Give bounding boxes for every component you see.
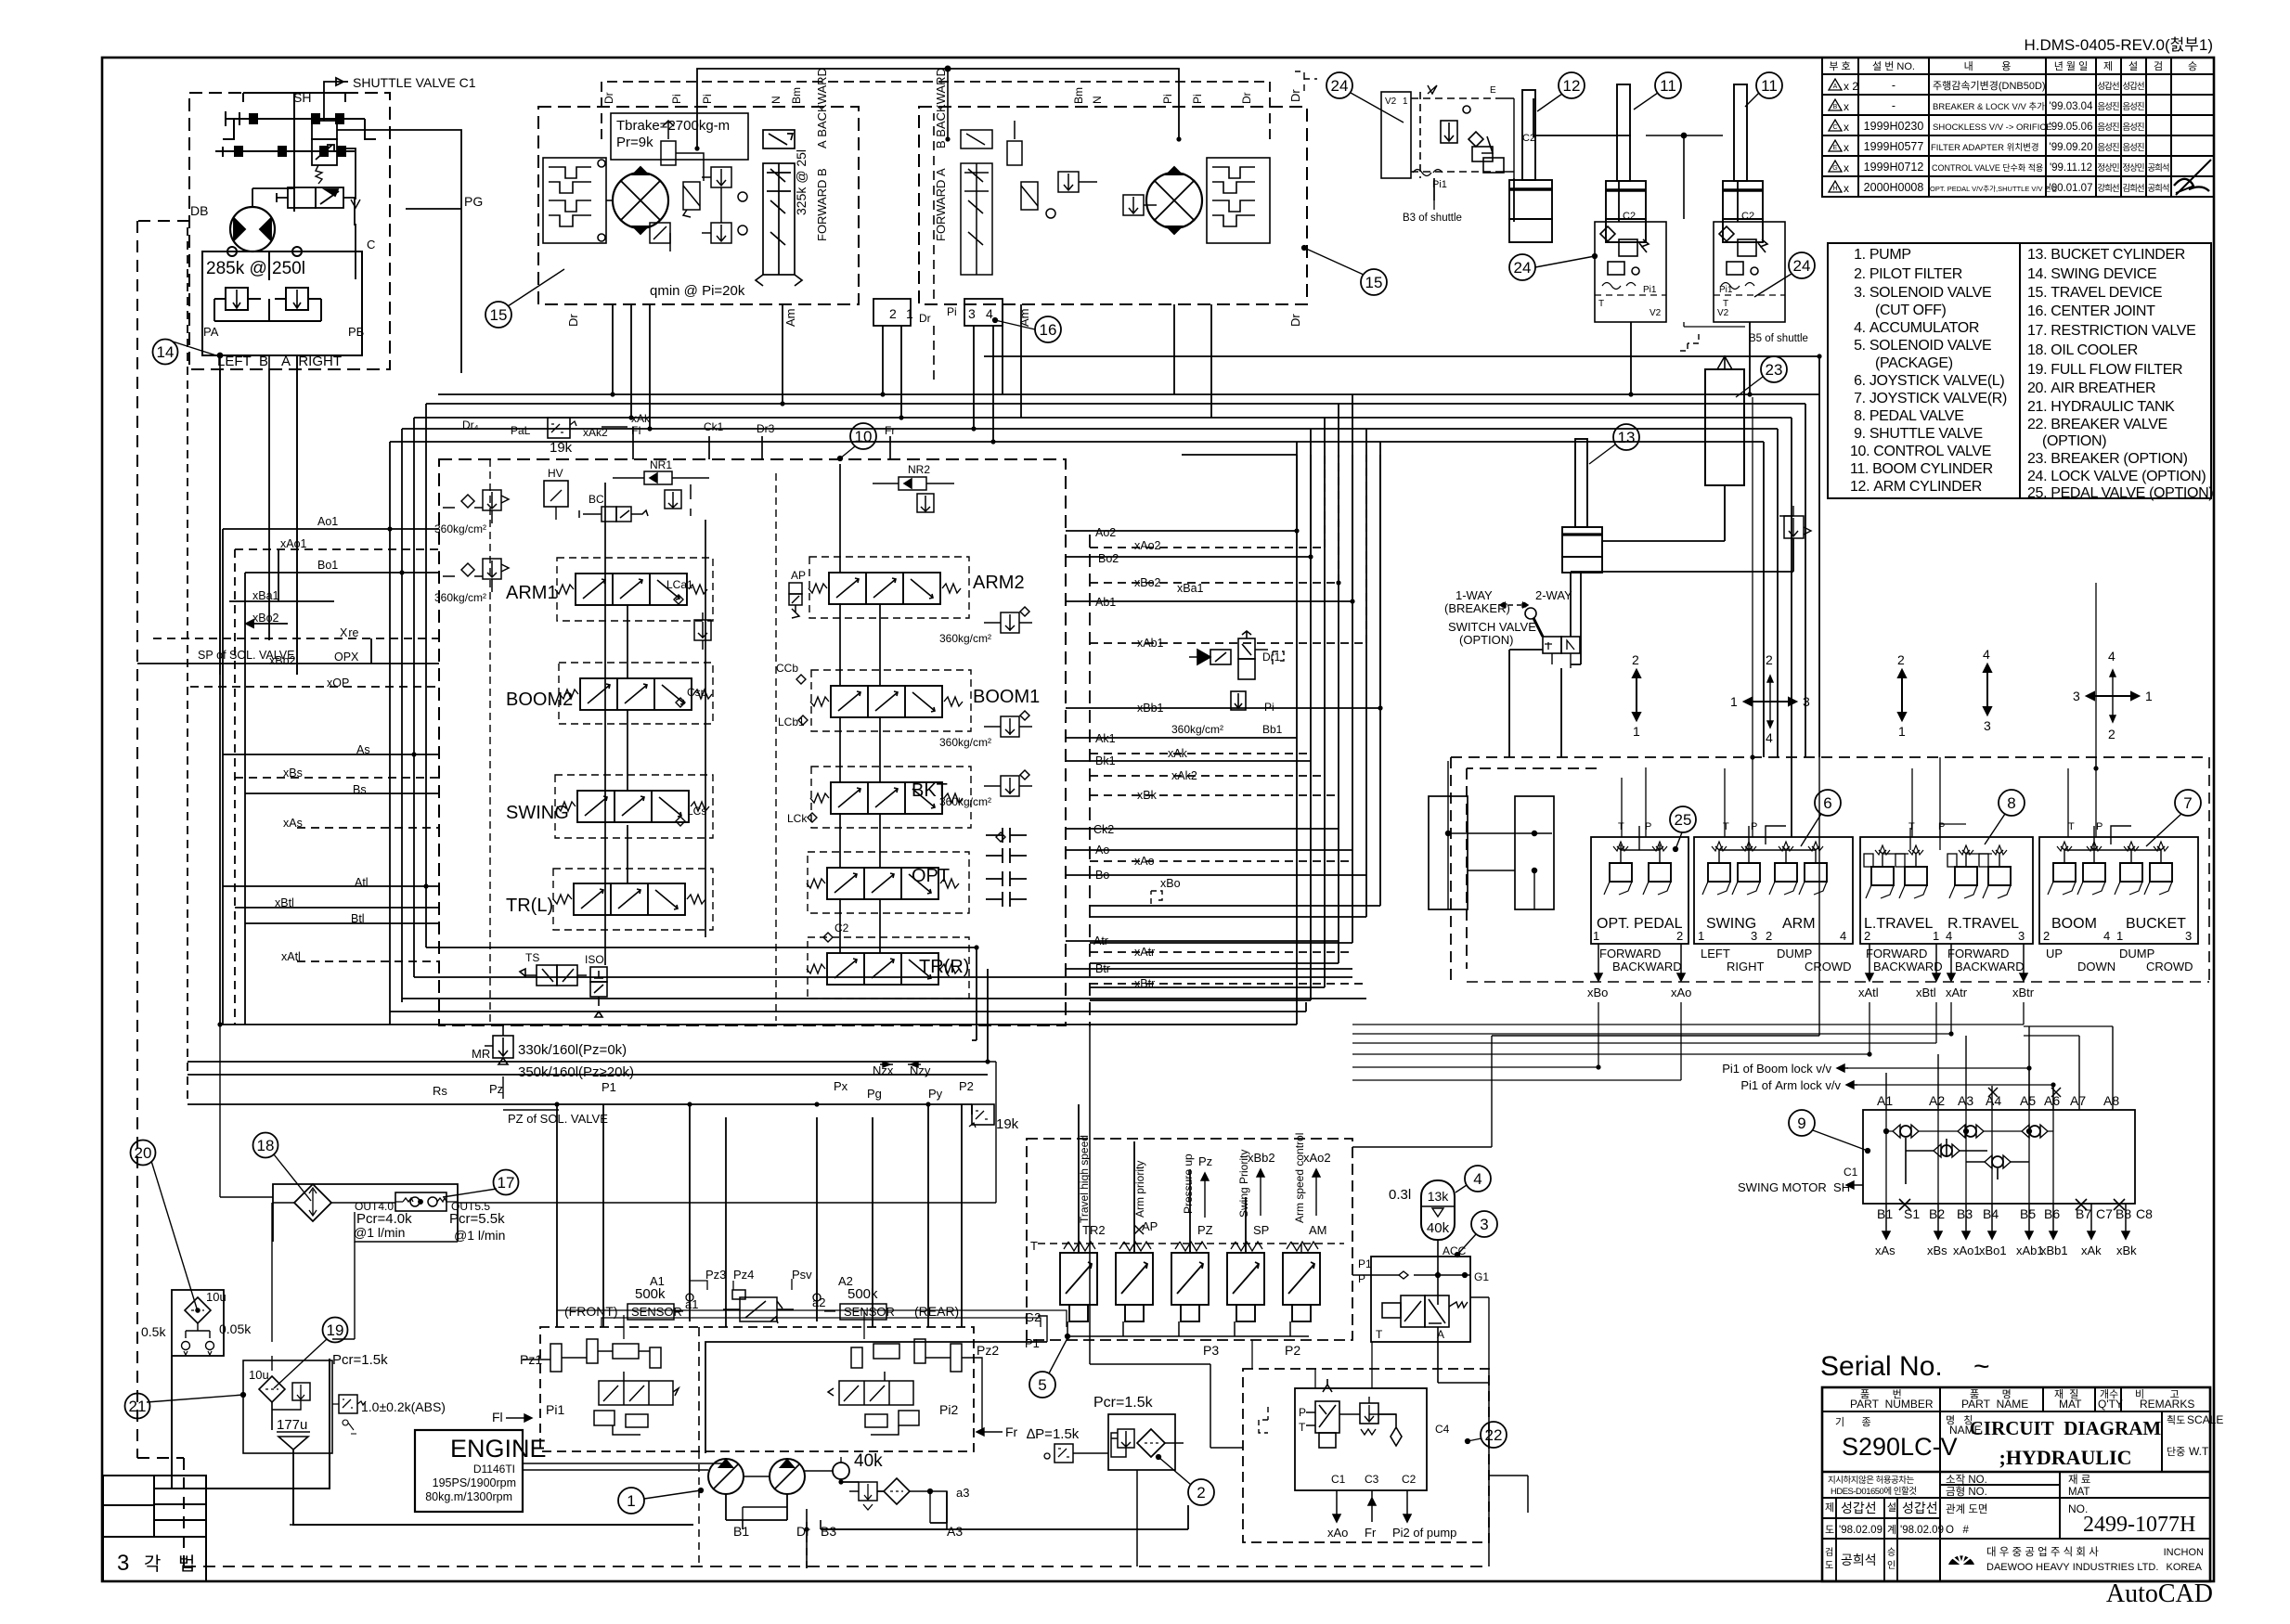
svg-text:Travel high speed: Travel high speed: [1078, 1135, 1091, 1223]
svg-text:xBtl: xBtl: [1916, 986, 1936, 999]
wire run 50: [1090, 394, 1352, 943]
svg-text:승: 승: [1887, 1547, 1895, 1558]
svg-text:B: B: [1833, 104, 1838, 110]
svg-text:NR1: NR1: [650, 458, 672, 471]
svg-text:Pz: Pz: [1198, 1154, 1212, 1168]
swing device 14 dashed enclosure: [189, 93, 390, 369]
wire nested riser bundle left of CV: [389, 442, 391, 1025]
svg-text:Fr: Fr: [1005, 1424, 1018, 1439]
svg-text:0.05k: 0.05k: [219, 1321, 252, 1336]
pump regulator dashed box: [540, 1327, 974, 1451]
wire run 44: [1090, 951, 1352, 953]
wire run 10: [223, 754, 439, 755]
pedal arrow R: [1984, 664, 1991, 715]
svg-text:285k @ 250l: 285k @ 250l: [206, 259, 305, 278]
wire run 41: [1090, 860, 1352, 862]
wire run 33: [1066, 455, 1380, 708]
restriction valve 17: [395, 1192, 446, 1211]
svg-text:지시하지않은 허용공차는: 지시하지않은 허용공차는: [1828, 1475, 1915, 1486]
svg-text:25. PEDAL VALVE (OPTION): 25. PEDAL VALVE (OPTION): [2027, 485, 2213, 501]
svg-text:1: 1: [1698, 929, 1704, 943]
wire run 43: [1066, 940, 1339, 942]
spool SWING: [557, 791, 709, 822]
svg-text:Dr: Dr: [796, 1524, 810, 1539]
row4: [1940, 1484, 2060, 1486]
svg-text:W.T: W.T: [2189, 1445, 2209, 1458]
svg-text:2-WAY: 2-WAY: [1535, 588, 1572, 602]
svg-text:1: 1: [627, 1492, 635, 1510]
wire P T feeds of remote controls: [1622, 757, 2096, 837]
svg-text:B3 of shuttle: B3 of shuttle: [1403, 213, 1462, 224]
wire run 63: [1352, 1002, 1951, 1034]
shuttle valve near swing: [312, 93, 360, 279]
arm cylinder 12: [1509, 90, 1552, 242]
svg-text:'98.02.09: '98.02.09: [1900, 1525, 1944, 1536]
svg-text:C2: C2: [834, 922, 849, 934]
svg-text:xAo: xAo: [1327, 1526, 1348, 1540]
svg-text:P: P: [1938, 821, 1945, 832]
svg-text:13: 13: [1618, 429, 1636, 446]
wire CV left port runs: [223, 529, 439, 1025]
svg-text:Pz: Pz: [489, 1082, 503, 1096]
svg-text:C: C: [1832, 124, 1837, 131]
svg-text:'99.05.06: '99.05.06: [2050, 122, 2093, 133]
svg-text:TR(R): TR(R): [919, 957, 969, 977]
svg-text:1: 1: [2116, 929, 2123, 943]
pilot manifold block A: [1429, 796, 1468, 909]
internal wires: [1886, 1110, 2053, 1204]
svg-text:23: 23: [1766, 361, 1783, 379]
svg-text:KOREA: KOREA: [2166, 1562, 2202, 1573]
Tbrake label box: [611, 113, 748, 160]
svg-text:음성진: 음성진: [2122, 122, 2143, 133]
svg-text:Fr: Fr: [1365, 1526, 1377, 1540]
svg-text:기 종: 기 종: [1835, 1416, 1871, 1428]
svg-text:P2: P2: [959, 1079, 974, 1093]
svg-text:P: P: [1751, 821, 1757, 832]
wire run 78: [1818, 757, 1820, 1036]
svg-text:a3: a3: [956, 1486, 969, 1500]
svg-text:15: 15: [490, 306, 508, 324]
wire run 74: [271, 1203, 273, 1342]
spool BOOM2: [560, 678, 712, 710]
wire run 70: [807, 1485, 1137, 1568]
wire P1 rail to pumps: [705, 1342, 1047, 1453]
wire run 17: [297, 960, 439, 962]
svg-text:1-WAY: 1-WAY: [1456, 588, 1493, 602]
relief valve right: [286, 288, 308, 310]
left port labels: [252, 515, 370, 963]
A port stubs above block: [1886, 1026, 2113, 1110]
wire down from swing ports: [220, 355, 297, 675]
svg-text:25: 25: [1675, 811, 1692, 829]
svg-text:RIGHT: RIGHT: [1727, 960, 1765, 973]
svg-text:Pi1 of Arm lock v/v: Pi1 of Arm lock v/v: [1740, 1078, 1841, 1092]
svg-text:Arm priority: Arm priority: [1133, 1161, 1146, 1218]
svg-text:Rs: Rs: [433, 1084, 447, 1098]
svg-text:V2: V2: [1650, 308, 1662, 318]
svg-text:PART NUMBER: PART NUMBER: [1850, 1398, 1934, 1411]
svg-text:공희석: 공희석: [2147, 184, 2168, 194]
swing motor: [230, 207, 275, 251]
svg-text:T: T: [1723, 821, 1729, 832]
svg-text:(PACKAGE): (PACKAGE): [1875, 355, 1953, 371]
balloon 15 right: [1361, 269, 1387, 295]
spool TR(L): [553, 883, 705, 915]
svg-text:xAo2: xAo2: [1134, 539, 1161, 552]
svg-text:CROWD: CROWD: [2146, 960, 2193, 973]
svg-text:2: 2: [1632, 652, 1639, 667]
svg-text:성갑선: 성갑선: [1841, 1501, 1877, 1515]
svg-text:Dr1: Dr1: [1262, 651, 1281, 664]
svg-text:22. BREAKER VALVE: 22. BREAKER VALVE: [2027, 417, 2167, 432]
svg-text:LCa1: LCa1: [666, 578, 693, 591]
svg-text:FORWARD A: FORWARD A: [934, 168, 948, 241]
svg-text:xAs: xAs: [1875, 1244, 1895, 1257]
wire remote control returns: [1352, 1002, 1598, 1067]
sensors: [627, 1304, 674, 1320]
svg-text:B2: B2: [1929, 1206, 1945, 1221]
svg-text:11. BOOM CYLINDER: 11. BOOM CYLINDER: [1850, 461, 1993, 477]
svg-text:10: 10: [855, 428, 873, 445]
svg-text:CONTROL VALVE 단수화 적용: CONTROL VALVE 단수화 적용: [1932, 162, 2043, 173]
svg-text:19. FULL FLOW FILTER: 19. FULL FLOW FILTER: [2027, 362, 2182, 378]
svg-text:C2: C2: [1402, 1473, 1417, 1486]
svg-text:주행감속기변경(DNB50D): 주행감속기변경(DNB50D): [1933, 80, 2046, 92]
bottom port labels: [433, 1063, 974, 1101]
svg-text:Serial No. ~: Serial No. ~: [1820, 1351, 1990, 1382]
svg-text:G1: G1: [1474, 1270, 1489, 1283]
svg-text:Pi: Pi: [1161, 94, 1174, 104]
svg-text:xAtl: xAtl: [1858, 986, 1879, 999]
svg-text:9: 9: [1797, 1115, 1805, 1132]
svg-text:500k: 500k: [847, 1286, 878, 1302]
svg-text:Pz2: Pz2: [977, 1343, 999, 1358]
svg-text:DAEWOO HEAVY INDUSTRIES LTD.: DAEWOO HEAVY INDUSTRIES LTD.: [1986, 1562, 2158, 1573]
svg-text:Pi2: Pi2: [939, 1402, 958, 1417]
svg-text:LCs: LCs: [687, 805, 706, 818]
front regulator: [550, 1339, 679, 1435]
svg-text:12. ARM CYLINDER: 12. ARM CYLINDER: [1850, 479, 1982, 495]
svg-text:OPX: OPX: [334, 651, 359, 664]
svg-text:16: 16: [1040, 321, 1057, 339]
svg-text:17. RESTRICTION VALVE: 17. RESTRICTION VALVE: [2027, 323, 2195, 339]
svg-text:금형 NO.: 금형 NO.: [1946, 1486, 1987, 1498]
wire run 46: [1090, 983, 1366, 985]
spool BKT: [810, 782, 963, 814]
svg-text:BOOM: BOOM: [2051, 916, 2097, 932]
wire run 26: [1003, 304, 1211, 418]
wire SH to shuttle valve C1: [324, 78, 343, 93]
svg-text:1: 1: [906, 306, 913, 321]
load check cluster Dr1: [1189, 631, 1284, 710]
gear block R: [1207, 158, 1270, 243]
svg-text:P2: P2: [1285, 1343, 1300, 1358]
svg-text:4: 4: [1840, 929, 1846, 943]
svg-text:FILTER ADAPTER 위치변경: FILTER ADAPTER 위치변경: [1931, 142, 2039, 153]
wire run 31: [1066, 455, 1352, 601]
wire run 62: [1352, 1002, 1936, 1043]
svg-text:4: 4: [2103, 929, 2110, 943]
svg-text:20: 20: [135, 1144, 152, 1162]
spool BOOM1: [810, 686, 963, 717]
svg-text:SWING: SWING: [1706, 916, 1756, 932]
wire run 13: [297, 827, 439, 829]
svg-text:CCb: CCb: [776, 662, 798, 675]
svg-text:LEFT: LEFT: [1701, 947, 1730, 960]
wire run 54: [402, 998, 1366, 999]
joystick cross boom/bucket: [2087, 692, 2139, 700]
svg-text:22: 22: [1485, 1426, 1503, 1444]
svg-text:A7: A7: [2070, 1093, 2086, 1108]
svg-text:8. PEDAL VALVE: 8. PEDAL VALVE: [1850, 408, 1964, 424]
joystick arrow swing: [1633, 670, 1640, 720]
right column 360 reliefs: [984, 607, 1032, 633]
svg-text:Dr: Dr: [1240, 92, 1253, 104]
svg-text:40k: 40k: [1427, 1220, 1450, 1236]
output arrows: [1201, 1173, 1209, 1218]
rear regulator (mirror): [828, 1339, 962, 1435]
svg-text:Pcr=5.5k: Pcr=5.5k: [449, 1211, 505, 1227]
svg-text:1: 1: [1898, 724, 1906, 739]
svg-text:10. CONTROL VALVE: 10. CONTROL VALVE: [1850, 444, 1991, 459]
solenoid valve of swing brake: [277, 187, 355, 226]
svg-text:소작 NO.: 소작 NO.: [1946, 1474, 1987, 1486]
wire run 32: [1090, 455, 1366, 643]
svg-text:P: P: [2096, 821, 2102, 832]
svg-text:xAo2: xAo2: [1303, 1151, 1331, 1165]
svg-text:PA: PA: [203, 325, 219, 339]
svg-text:xBo2: xBo2: [252, 612, 279, 625]
wire run 49: [1090, 404, 1339, 963]
wire run 11: [235, 777, 439, 779]
svg-text:xAo1: xAo1: [280, 537, 307, 550]
svg-text:11: 11: [1660, 77, 1676, 95]
svg-text:1: 1: [1730, 694, 1738, 709]
svg-text:xBb1: xBb1: [2040, 1244, 2068, 1257]
svg-text:PART NAME: PART NAME: [1961, 1398, 2028, 1411]
svg-text:TR(L): TR(L): [506, 896, 553, 916]
svg-text:Pi: Pi: [947, 305, 957, 318]
wire top dashed pilot bus: [602, 82, 1270, 139]
dashed tank line left: [137, 221, 189, 1566]
wire run 57: [188, 969, 988, 1062]
svg-text:LCk: LCk: [787, 812, 808, 825]
svg-text:TR2: TR2: [1082, 1223, 1106, 1237]
svg-text:ACC: ACC: [1443, 1244, 1467, 1257]
svg-text:P1: P1: [1025, 1336, 1040, 1350]
svg-text:6: 6: [1823, 794, 1831, 812]
svg-text:xBb2: xBb2: [1248, 1151, 1275, 1165]
svg-text:xAk: xAk: [631, 412, 651, 425]
svg-text:1999H0577: 1999H0577: [1864, 140, 1924, 153]
center relief PSv: [723, 1290, 794, 1323]
wire solenoid block feeds: [1079, 1104, 1246, 1253]
svg-text:설: 설: [1887, 1502, 1896, 1514]
svg-text:2: 2: [2108, 727, 2115, 741]
svg-text:18: 18: [257, 1137, 275, 1154]
svg-text:검: 검: [2154, 60, 2163, 72]
svg-text:3: 3: [1751, 929, 1757, 943]
svg-text:1.0±0.2k(ABS): 1.0±0.2k(ABS): [361, 1399, 446, 1414]
svg-text:C7: C7: [2096, 1206, 2113, 1221]
spool ARM1: [555, 574, 707, 605]
svg-text:7. JOYSTICK VALVE(R): 7. JOYSTICK VALVE(R): [1850, 391, 2007, 406]
joystick cross arm: [1744, 698, 1796, 705]
spool OPT: [807, 868, 959, 899]
wire rail P left: [604, 483, 606, 965]
svg-text:x 2: x 2: [1844, 80, 1858, 93]
svg-text:성갑선: 성갑선: [2097, 81, 2118, 92]
svg-text:x: x: [1844, 182, 1849, 195]
svg-text:관계 도면: 관계 도면: [1946, 1503, 1988, 1515]
svg-text:Q'TY: Q'TY: [2098, 1398, 2123, 1411]
svg-text:-: -: [1892, 99, 1895, 112]
svg-text:2: 2: [1766, 929, 1772, 943]
boom cylinder 11 b: [1723, 84, 1763, 242]
svg-text:H.DMS-0405-REV.0(첤부1): H.DMS-0405-REV.0(첤부1): [2024, 36, 2213, 54]
bottom ports: [1877, 1206, 2153, 1221]
svg-text:X re: X re: [340, 626, 359, 639]
relief 360 left B: [443, 559, 509, 592]
travel motor R: [1146, 173, 1202, 228]
svg-text:G2: G2: [1025, 1310, 1041, 1324]
svg-text:18. OIL COOLER: 18. OIL COOLER: [2027, 342, 2138, 358]
wire rail center: [705, 520, 706, 937]
svg-text:2: 2: [1197, 1484, 1205, 1502]
wire run 15: [235, 907, 439, 909]
svg-text:Dr: Dr: [1288, 314, 1302, 327]
svg-text:정상민: 정상민: [2097, 163, 2118, 174]
balloon 24: [1326, 72, 1352, 98]
svg-text:330k/160l(Pz=0k): 330k/160l(Pz=0k): [518, 1042, 627, 1058]
svg-text:PaL: PaL: [511, 424, 531, 437]
pilot manifold block B: [1515, 796, 1554, 909]
top pilot bus: [602, 66, 1270, 148]
svg-text:A1: A1: [650, 1274, 665, 1288]
svg-text:ARM1: ARM1: [506, 583, 558, 603]
gear pump 40k: [833, 1463, 849, 1479]
svg-text:@1 l/min: @1 l/min: [454, 1228, 505, 1243]
svg-text:(FRONT): (FRONT): [564, 1304, 618, 1319]
svg-text:S290LC-V: S290LC-V: [1842, 1433, 1958, 1461]
wire run 56: [426, 947, 977, 1040]
svg-text:Psv: Psv: [792, 1268, 812, 1282]
svg-text:xBk: xBk: [2116, 1244, 2137, 1257]
wire run 75: [458, 1062, 996, 1203]
small relief under ARM1: [694, 612, 711, 650]
svg-text:C: C: [367, 238, 375, 251]
svg-text:BOOM2: BOOM2: [506, 690, 573, 710]
svg-text:Fr: Fr: [885, 424, 895, 437]
svg-text:Am: Am: [783, 309, 797, 328]
svg-text:4: 4: [1983, 647, 1990, 662]
svg-text:23. BREAKER (OPTION): 23. BREAKER (OPTION): [2027, 451, 2188, 467]
svg-text:'99.03.04: '99.03.04: [2050, 101, 2094, 112]
gear train of swing reduction: [215, 93, 376, 212]
svg-text:P1: P1: [1358, 1257, 1372, 1270]
svg-text:A RIGHT: A RIGHT: [281, 354, 342, 369]
LC nodes: [666, 578, 1005, 942]
svg-text:C2: C2: [1741, 211, 1754, 222]
svg-text:1: 1: [1403, 97, 1408, 107]
svg-text:P1: P1: [602, 1080, 616, 1094]
svg-text:DB: DB: [190, 203, 208, 218]
svg-text:AM: AM: [1309, 1223, 1327, 1237]
svg-text:15: 15: [1365, 274, 1383, 291]
svg-text:Pi1 of Boom lock v/v: Pi1 of Boom lock v/v: [1722, 1062, 1831, 1076]
svg-text:DOWN: DOWN: [2077, 960, 2115, 973]
relief right of breaker: [1784, 516, 1804, 538]
svg-text:B3: B3: [821, 1524, 836, 1539]
svg-text:AutoCAD: AutoCAD: [2106, 1579, 2213, 1608]
svg-text:24: 24: [1331, 77, 1349, 95]
svg-text:S1: S1: [1904, 1206, 1920, 1221]
wire center joint drops: [883, 326, 993, 442]
relief 360 left A: [443, 490, 509, 523]
rev row triangles: [1829, 79, 2211, 195]
svg-text:2: 2: [1897, 652, 1905, 667]
svg-text:(BREAKER): (BREAKER): [1444, 601, 1510, 615]
lock valve (option) for arm cylinder: [1295, 71, 1535, 200]
svg-text:설: 설: [2128, 60, 2138, 72]
svg-text:승: 승: [2188, 60, 2197, 72]
wire linking boom cylinders: [1646, 135, 1723, 136]
svg-text:BOOM1: BOOM1: [973, 687, 1040, 707]
svg-text:T: T: [1376, 1328, 1383, 1341]
svg-text:Pg: Pg: [867, 1087, 882, 1101]
spool ARM2: [809, 573, 961, 604]
wire run 28: [1090, 455, 1325, 548]
svg-text:L.TRAVEL: L.TRAVEL: [1864, 916, 1934, 932]
wire run 8: [137, 638, 439, 664]
svg-text:3: 3: [1480, 1216, 1488, 1233]
orifice capacitor symbols: [986, 828, 1027, 907]
svg-text:Dr: Dr: [566, 314, 580, 327]
svg-text:xAk: xAk: [2081, 1244, 2102, 1257]
svg-text:8: 8: [2007, 794, 2015, 812]
svg-text:PZ of SOL. VALVE: PZ of SOL. VALVE: [508, 1112, 608, 1126]
wire top solid bus: [697, 69, 1179, 148]
svg-text:Pi1: Pi1: [546, 1402, 564, 1417]
svg-text:CIRCUIT DIAGRAM: CIRCUIT DIAGRAM: [1970, 1417, 2162, 1439]
svg-text:15. TRAVEL DEVICE: 15. TRAVEL DEVICE: [2027, 285, 2162, 301]
spool TR(R): [807, 953, 959, 985]
wire run 19: [413, 418, 415, 977]
wire run 53: [390, 1002, 1306, 1012]
wire run 14: [223, 885, 439, 887]
svg-text:N: N: [770, 96, 783, 104]
svg-text:SHUTTLE VALVE C1: SHUTTLE VALVE C1: [353, 75, 476, 90]
wire run 66: [1467, 981, 2209, 983]
svg-text:Dr: Dr: [602, 92, 615, 104]
svg-text:360kg/cm²: 360kg/cm²: [434, 522, 486, 535]
svg-text:Pz4: Pz4: [733, 1268, 754, 1282]
svg-text:Fl: Fl: [492, 1410, 503, 1424]
svg-text:Dr: Dr: [1288, 89, 1302, 102]
wire run 23: [390, 442, 1764, 757]
svg-text:단중: 단중: [2167, 1446, 2185, 1458]
svg-text:T: T: [1723, 299, 1728, 309]
wire run 4: [245, 573, 439, 1025]
wire run 65: [1753, 397, 2096, 768]
svg-text:xBo: xBo: [1160, 877, 1181, 890]
swing device port box: [202, 247, 362, 355]
svg-text:x: x: [1844, 121, 1849, 134]
svg-text:MR: MR: [472, 1047, 490, 1061]
svg-text:T: T: [2068, 821, 2075, 832]
wire Pi lock valve lines: [1847, 1068, 2029, 1110]
